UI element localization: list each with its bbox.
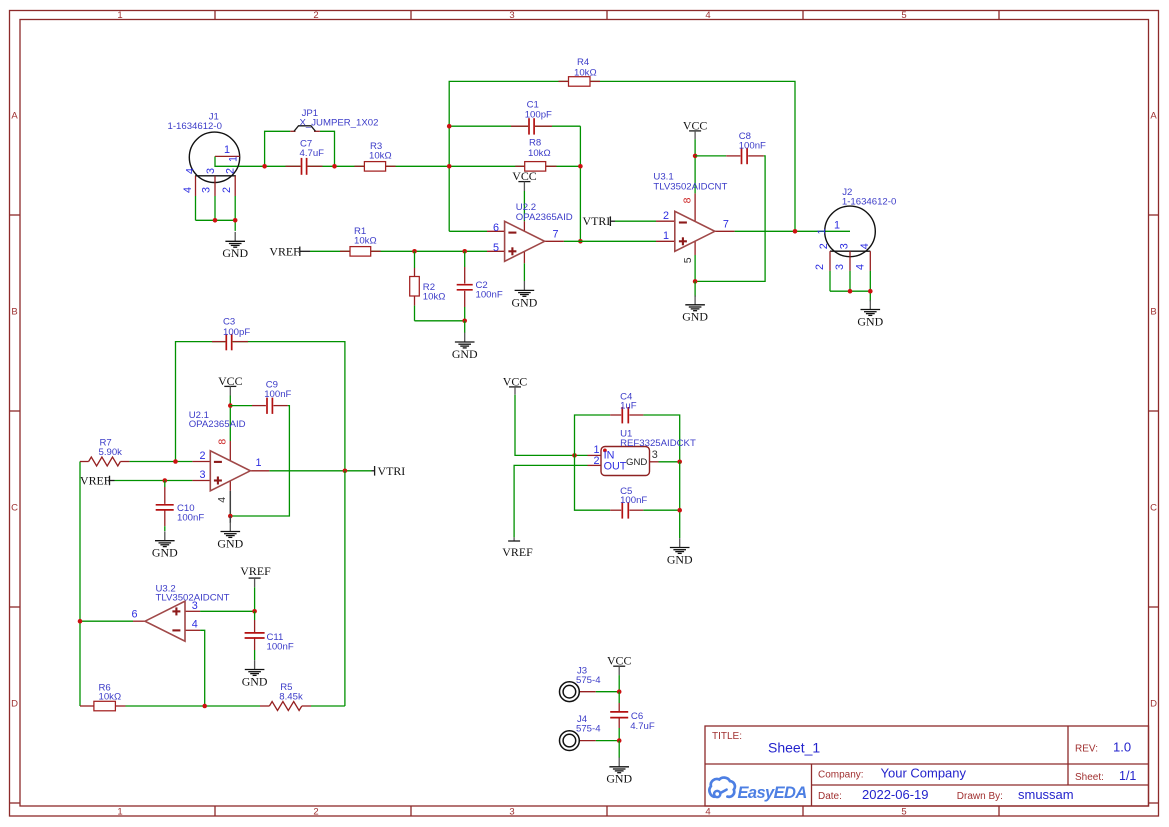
capacitor C8 <box>695 131 766 165</box>
svg-text:2: 2 <box>313 10 318 21</box>
node junction R2 top <box>412 249 417 254</box>
ground C11 <box>242 660 268 688</box>
node junction J2 pin3 <box>848 289 853 294</box>
svg-text:5.90k: 5.90k <box>99 447 123 458</box>
svg-text:A: A <box>1150 111 1157 122</box>
frame top ruler ticks <box>215 11 999 20</box>
wire VCC to U2.2 pin8 <box>523 191 525 221</box>
resistor R7 <box>80 438 129 466</box>
svg-text:1/1: 1/1 <box>1119 769 1136 783</box>
svg-text:6: 6 <box>493 222 499 234</box>
wire VCC to J3 node <box>618 675 620 692</box>
wire C1 row <box>449 125 580 127</box>
svg-text:575-4: 575-4 <box>576 675 601 686</box>
wire C2 to gnd <box>464 321 466 333</box>
capacitor C7 <box>286 138 325 175</box>
wire U2.1 to gnd <box>229 516 231 523</box>
node junction C2 top <box>462 249 467 254</box>
jumper JP1 <box>265 108 379 167</box>
svg-text:10kΩ: 10kΩ <box>528 148 551 159</box>
ground C10 <box>152 531 178 559</box>
svg-text:smussam: smussam <box>1018 787 1074 802</box>
svg-text:100nF: 100nF <box>264 389 291 400</box>
svg-text:VREF: VREF <box>269 244 300 258</box>
svg-text:4: 4 <box>855 264 867 270</box>
node junction C1 left <box>447 124 452 129</box>
wire bottom feedback row <box>126 471 345 706</box>
wire R4 top feedback <box>449 81 795 231</box>
svg-text:3: 3 <box>834 264 846 270</box>
svg-text:VCC: VCC <box>683 118 708 132</box>
svg-text:3: 3 <box>652 449 658 461</box>
wire VTRI to U3.1 pin2 <box>615 220 656 222</box>
wire pin6 stub <box>449 230 487 232</box>
title block texts <box>712 731 1136 802</box>
svg-text:10kΩ: 10kΩ <box>354 236 377 247</box>
title block border <box>705 726 1149 806</box>
connector J1 <box>168 112 240 197</box>
svg-text:2: 2 <box>594 455 600 467</box>
svg-text:4.7uF: 4.7uF <box>300 148 325 159</box>
svg-text:2: 2 <box>818 243 830 249</box>
svg-text:VCC: VCC <box>607 654 632 668</box>
node junction U1 pin3 <box>677 460 682 465</box>
svg-text:VCC: VCC <box>218 374 243 388</box>
svg-text:8: 8 <box>216 439 228 445</box>
node junction C3 left / pin2 <box>173 459 178 464</box>
wire VCC to C8 node <box>694 139 696 193</box>
wire VCC to U1 pin1 <box>515 395 588 456</box>
wire U3.2 output <box>80 620 133 622</box>
svg-text:100nF: 100nF <box>476 290 503 301</box>
wire U3.1 to gnd <box>694 281 696 296</box>
svg-text:5: 5 <box>682 257 694 263</box>
svg-text:TLV3502AIDCNT: TLV3502AIDCNT <box>653 181 727 192</box>
wire J2 pins to gnd bus <box>830 271 870 301</box>
node junction U2.1 pin4 <box>228 514 233 519</box>
label VREF net lower <box>80 474 115 488</box>
node junction J1 pin3 <box>213 218 218 223</box>
svg-text:GND: GND <box>626 457 647 468</box>
svg-text:5: 5 <box>493 242 499 254</box>
svg-text:VREF: VREF <box>502 545 533 559</box>
svg-text:Date:: Date: <box>818 791 842 802</box>
power VCC U2.2 <box>512 169 537 191</box>
wire U1 pin3 to gnd node <box>659 461 680 463</box>
ground U3.1 <box>682 295 708 323</box>
wire U2.1 output to VTRI <box>269 470 371 472</box>
connector J3 <box>560 666 602 702</box>
svg-text:4: 4 <box>192 619 198 631</box>
frame right ruler ticks <box>1149 215 1159 803</box>
svg-text:8: 8 <box>682 197 694 203</box>
node junction C10 top <box>163 478 168 483</box>
svg-text:Sheet:: Sheet: <box>1075 772 1104 783</box>
resistor R6 <box>80 682 126 711</box>
capacitor C3 <box>212 317 250 351</box>
svg-text:10kΩ: 10kΩ <box>574 67 597 78</box>
power VREF U1 <box>502 537 533 558</box>
svg-text:4: 4 <box>182 187 194 193</box>
node junction C11 top <box>252 609 257 614</box>
wire VCC to C9 node <box>229 396 231 442</box>
svg-text:OPA2365AID: OPA2365AID <box>189 419 246 430</box>
node junction U2.2 output <box>578 239 583 244</box>
wire VREF to pin5 <box>310 250 487 252</box>
power VCC U1 <box>503 374 528 394</box>
node junction C9 left <box>228 403 233 408</box>
node junction R8 left <box>447 164 452 169</box>
svg-text:100nF: 100nF <box>267 642 294 653</box>
label VTRI net upper <box>583 214 616 228</box>
node junction R6-R5 <box>202 704 207 709</box>
svg-text:4: 4 <box>705 10 710 21</box>
ground C2 <box>452 333 478 361</box>
svg-text:Drawn By:: Drawn By: <box>957 791 1003 802</box>
svg-text:C: C <box>1150 503 1157 514</box>
wire C4 right down <box>643 415 679 462</box>
svg-text:3: 3 <box>201 187 213 193</box>
svg-text:VREF: VREF <box>240 564 271 578</box>
svg-text:C3: C3 <box>223 317 235 328</box>
svg-text:C: C <box>11 503 18 514</box>
capacitor C1 <box>511 100 552 135</box>
svg-text:1: 1 <box>117 807 122 818</box>
resistor R1 <box>340 226 381 256</box>
svg-text:B: B <box>1150 307 1156 318</box>
svg-text:10kΩ: 10kΩ <box>423 291 446 302</box>
node junction JP1 left <box>262 164 267 169</box>
svg-text:4: 4 <box>185 168 197 174</box>
wire C9 right loop <box>230 406 289 516</box>
svg-text:1: 1 <box>663 230 669 242</box>
svg-text:2: 2 <box>225 168 237 174</box>
svg-text:VREF: VREF <box>80 474 111 488</box>
svg-text:1uF: 1uF <box>620 400 637 411</box>
svg-text:3: 3 <box>200 469 206 481</box>
wire U2.2 out to U3.1 pin1 <box>564 240 656 242</box>
node junction C5 right <box>677 508 682 513</box>
svg-text:TLV3502AIDCNT: TLV3502AIDCNT <box>156 593 230 604</box>
ground J2 <box>857 300 883 328</box>
wire C8 right loop <box>695 156 765 282</box>
resistor R4 <box>559 57 601 86</box>
svg-text:1: 1 <box>228 156 240 162</box>
svg-text:100pF: 100pF <box>525 110 552 121</box>
ground U2.1 <box>217 522 243 550</box>
svg-text:4: 4 <box>859 243 871 249</box>
wire R2 bottom to C2 <box>415 320 465 322</box>
frame left ruler ticks <box>10 215 21 803</box>
ground U1 <box>667 538 693 566</box>
svg-text:4.7uF: 4.7uF <box>630 721 655 732</box>
wire C1 right vertical <box>579 126 581 241</box>
svg-text:2022-06-19: 2022-06-19 <box>862 787 929 802</box>
svg-text:1: 1 <box>117 10 122 21</box>
power VCC J3 <box>607 654 632 676</box>
svg-text:7: 7 <box>553 228 559 240</box>
wire main top net J1-C7-R3-R8 <box>215 156 580 166</box>
node junction C3 right <box>343 469 348 474</box>
svg-text:1: 1 <box>256 457 262 469</box>
svg-text:3: 3 <box>509 807 514 818</box>
svg-text:R8: R8 <box>529 137 541 148</box>
op-amp U3.1 <box>653 172 734 282</box>
svg-text:100nF: 100nF <box>739 140 766 151</box>
svg-text:OPA2365AID: OPA2365AID <box>516 212 573 223</box>
resistor R8 <box>515 137 556 171</box>
svg-text:575-4: 575-4 <box>576 724 601 735</box>
ground U2.2 <box>512 281 538 309</box>
node junction J1 pin2 <box>233 218 238 223</box>
svg-text:REF3325AIDCKT: REF3325AIDCKT <box>620 438 696 449</box>
svg-text:D: D <box>11 699 18 710</box>
frame column numbers bottom <box>117 807 906 818</box>
ground J1 <box>222 232 248 260</box>
node junction feedback J2 <box>793 229 798 234</box>
capacitor C5 <box>575 455 648 519</box>
wire U3.1 out to J2 <box>735 230 850 232</box>
svg-text:2: 2 <box>221 187 233 193</box>
node junction U3.1 pin5 bottom <box>693 279 698 284</box>
node junction JP1 right <box>332 164 337 169</box>
node junction C2 bottom <box>462 319 467 324</box>
svg-text:1.0: 1.0 <box>1113 740 1131 755</box>
svg-text:VTRI: VTRI <box>378 464 406 478</box>
frame row letters right <box>1150 111 1157 710</box>
op-amp U3.2 <box>132 583 230 641</box>
svg-text:100nF: 100nF <box>177 513 204 524</box>
wire C6 to gnd <box>618 741 620 758</box>
resistor R2 <box>410 251 446 320</box>
node junction J4 <box>617 738 622 743</box>
svg-text:EasyEDA: EasyEDA <box>738 784 807 802</box>
wire J1 pins to gnd bus <box>196 196 236 231</box>
svg-text:1-1634612-0: 1-1634612-0 <box>842 196 896 207</box>
svg-text:3: 3 <box>509 10 514 21</box>
svg-text:6: 6 <box>132 609 138 621</box>
connector J2 <box>814 187 897 271</box>
wire U1 pin2 to VREF <box>514 465 587 537</box>
capacitor C9 <box>230 379 291 414</box>
capacitor C10 <box>156 481 205 532</box>
wire gnd vertical <box>679 462 681 538</box>
connector J4 <box>560 714 602 750</box>
op-amp U2.1 <box>189 410 270 516</box>
svg-text:Your Company: Your Company <box>881 766 967 781</box>
node junction R8 right <box>578 164 583 169</box>
capacitor C2 <box>457 251 503 320</box>
svg-text:1: 1 <box>834 220 840 232</box>
node junction C4 left <box>572 453 577 458</box>
frame column numbers top <box>117 10 906 21</box>
svg-text:X_JUMPER_1X02: X_JUMPER_1X02 <box>300 117 379 128</box>
svg-text:10kΩ: 10kΩ <box>369 151 392 162</box>
resistor R5 <box>260 682 311 711</box>
node junction U3.2 out <box>78 619 83 624</box>
wire U3.2 pin3 row <box>200 610 255 612</box>
power VREF U3.2 <box>240 564 271 588</box>
wire J4 to node <box>596 740 619 742</box>
svg-text:3: 3 <box>839 243 851 249</box>
svg-text:Sheet_1: Sheet_1 <box>768 740 820 756</box>
label VREF net left <box>269 244 310 258</box>
svg-text:4: 4 <box>705 807 710 818</box>
svg-text:A: A <box>11 111 18 122</box>
svg-text:100nF: 100nF <box>620 495 647 506</box>
power VCC U2.1 <box>218 374 243 396</box>
svg-text:D: D <box>1150 699 1157 710</box>
node junction J3 <box>617 689 622 694</box>
svg-text:2: 2 <box>200 450 206 462</box>
svg-text:B: B <box>11 307 17 318</box>
wire VREF to U2.1 pin3 <box>115 480 193 482</box>
svg-text:2: 2 <box>313 807 318 818</box>
frame bottom ruler ticks <box>215 806 999 816</box>
wire R7 row <box>80 462 192 707</box>
capacitor C3 loop wires <box>176 342 345 471</box>
power VCC U3.1 <box>683 118 708 139</box>
svg-text:5: 5 <box>901 10 906 21</box>
svg-text:OUT: OUT <box>604 461 627 473</box>
logo EasyEDA <box>709 778 806 802</box>
svg-text:5: 5 <box>901 807 906 818</box>
node junction J2 pin4 <box>868 289 873 294</box>
capacitor C11 <box>245 611 294 660</box>
svg-text:VCC: VCC <box>512 169 537 183</box>
capacitor C4 <box>575 391 644 455</box>
wire VREF to U3.2 pin3 <box>254 587 256 611</box>
svg-text:4: 4 <box>216 497 228 503</box>
svg-text:TITLE:: TITLE: <box>712 731 742 742</box>
svg-text:1: 1 <box>816 228 828 234</box>
capacitor C6 <box>610 692 655 741</box>
svg-text:VTRI: VTRI <box>583 214 611 228</box>
svg-text:10kΩ: 10kΩ <box>99 692 122 703</box>
wire U3.2 pin4 loop <box>200 630 205 706</box>
svg-text:7: 7 <box>723 218 729 230</box>
svg-text:Company:: Company: <box>818 770 864 781</box>
label VTRI net lower <box>372 464 406 478</box>
ground J3 J4 <box>606 757 632 785</box>
svg-text:VCC: VCC <box>503 374 528 388</box>
svg-text:8.45k: 8.45k <box>279 692 303 703</box>
svg-text:REV:: REV: <box>1075 744 1098 755</box>
chip U1 REF3325AIDCKT <box>588 429 696 476</box>
svg-text:2: 2 <box>663 210 669 222</box>
wire C5 right <box>643 509 679 511</box>
svg-text:3: 3 <box>205 168 217 174</box>
svg-text:2: 2 <box>814 264 826 270</box>
node junction C8 left <box>693 154 698 159</box>
resistor R3 <box>354 141 395 171</box>
wire J3 to node <box>596 691 619 693</box>
op-amp U2.2 <box>487 202 573 281</box>
svg-text:1-1634612-0: 1-1634612-0 <box>168 121 222 132</box>
frame row letters left <box>11 111 18 710</box>
svg-text:100pF: 100pF <box>223 327 250 338</box>
svg-text:1: 1 <box>224 144 230 156</box>
